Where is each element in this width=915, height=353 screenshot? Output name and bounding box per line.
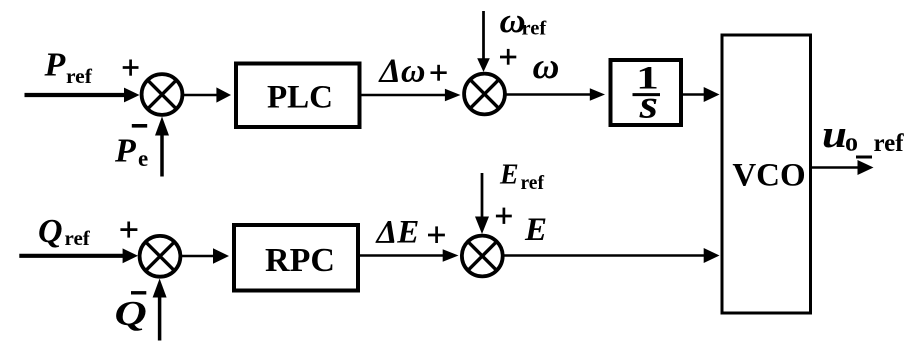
label P_ref bbox=[44, 47, 93, 89]
wire S3 to RPC bbox=[181, 248, 229, 264]
plus sign after delta-E bbox=[428, 226, 445, 243]
plus sign at summer S3 bbox=[120, 222, 137, 238]
wire PLC to S2 bbox=[362, 89, 461, 102]
svg-text:P: P bbox=[114, 133, 136, 170]
svg-text:u: u bbox=[822, 114, 847, 157]
block integrator 1/s bbox=[611, 60, 682, 127]
wire integrator to VCO bbox=[683, 87, 720, 102]
svg-text:s: s bbox=[639, 83, 658, 127]
block VCO bbox=[722, 35, 811, 313]
wire P_e feedback arrow (up into S1) bbox=[155, 117, 169, 177]
svg-text:RPC: RPC bbox=[265, 242, 335, 279]
svg-text:PLC: PLC bbox=[267, 80, 333, 116]
plus sign after delta-omega bbox=[431, 65, 447, 81]
label u_o_ref bbox=[822, 114, 904, 157]
svg-text:Δω: Δω bbox=[378, 53, 426, 90]
block PLC bbox=[236, 64, 360, 128]
svg-text:ref: ref bbox=[522, 18, 548, 40]
svg-text:VCO: VCO bbox=[732, 158, 805, 194]
plus sign at S2 top bbox=[500, 49, 516, 65]
label omega_ref bbox=[500, 1, 548, 40]
svg-text:ref: ref bbox=[65, 226, 91, 250]
wire omega_ref input (down into S2) bbox=[477, 11, 490, 72]
wire P_ref input arrow bbox=[25, 88, 140, 103]
svg-text:E: E bbox=[524, 212, 547, 248]
wire VCO output arrow bbox=[811, 160, 874, 175]
wire E_ref input (down into S4) bbox=[475, 173, 489, 234]
label E_ref bbox=[499, 160, 544, 195]
svg-text:o: o bbox=[845, 128, 858, 157]
svg-text:Q: Q bbox=[115, 294, 147, 333]
summer S4 (circle with X) bbox=[462, 236, 503, 277]
minus sign at summer S3 bbox=[131, 291, 146, 294]
svg-text:Q: Q bbox=[38, 213, 63, 250]
svg-text:e: e bbox=[138, 146, 148, 171]
svg-text:P: P bbox=[44, 47, 66, 84]
wire S2 to integrator bbox=[505, 88, 606, 100]
wire Q_ref input arrow bbox=[19, 248, 138, 263]
summer S1 (circle with X) bbox=[142, 74, 183, 115]
summer S3 (circle with X) bbox=[140, 236, 181, 277]
wire S1 to PLC bbox=[183, 87, 231, 102]
svg-text:ref: ref bbox=[874, 130, 905, 157]
summer S2 (circle with X) bbox=[464, 74, 505, 115]
wire Q feedback arrow (up into S3) bbox=[153, 279, 167, 341]
label P_e bbox=[114, 133, 148, 172]
block RPC bbox=[234, 225, 358, 291]
svg-text:ω: ω bbox=[533, 45, 560, 86]
wire RPC to S4 bbox=[360, 249, 459, 262]
plus sign at summer S1 bbox=[123, 60, 139, 76]
minus sign at summer S1 bbox=[132, 124, 147, 128]
plus sign at S4 top bbox=[496, 208, 512, 224]
wire S4 to VCO bbox=[503, 248, 720, 263]
svg-text:ref: ref bbox=[521, 173, 545, 194]
svg-text:ΔE: ΔE bbox=[375, 215, 420, 251]
label Q_ref bbox=[38, 213, 91, 250]
svg-text:ref: ref bbox=[66, 64, 93, 88]
svg-text:E: E bbox=[499, 160, 519, 191]
